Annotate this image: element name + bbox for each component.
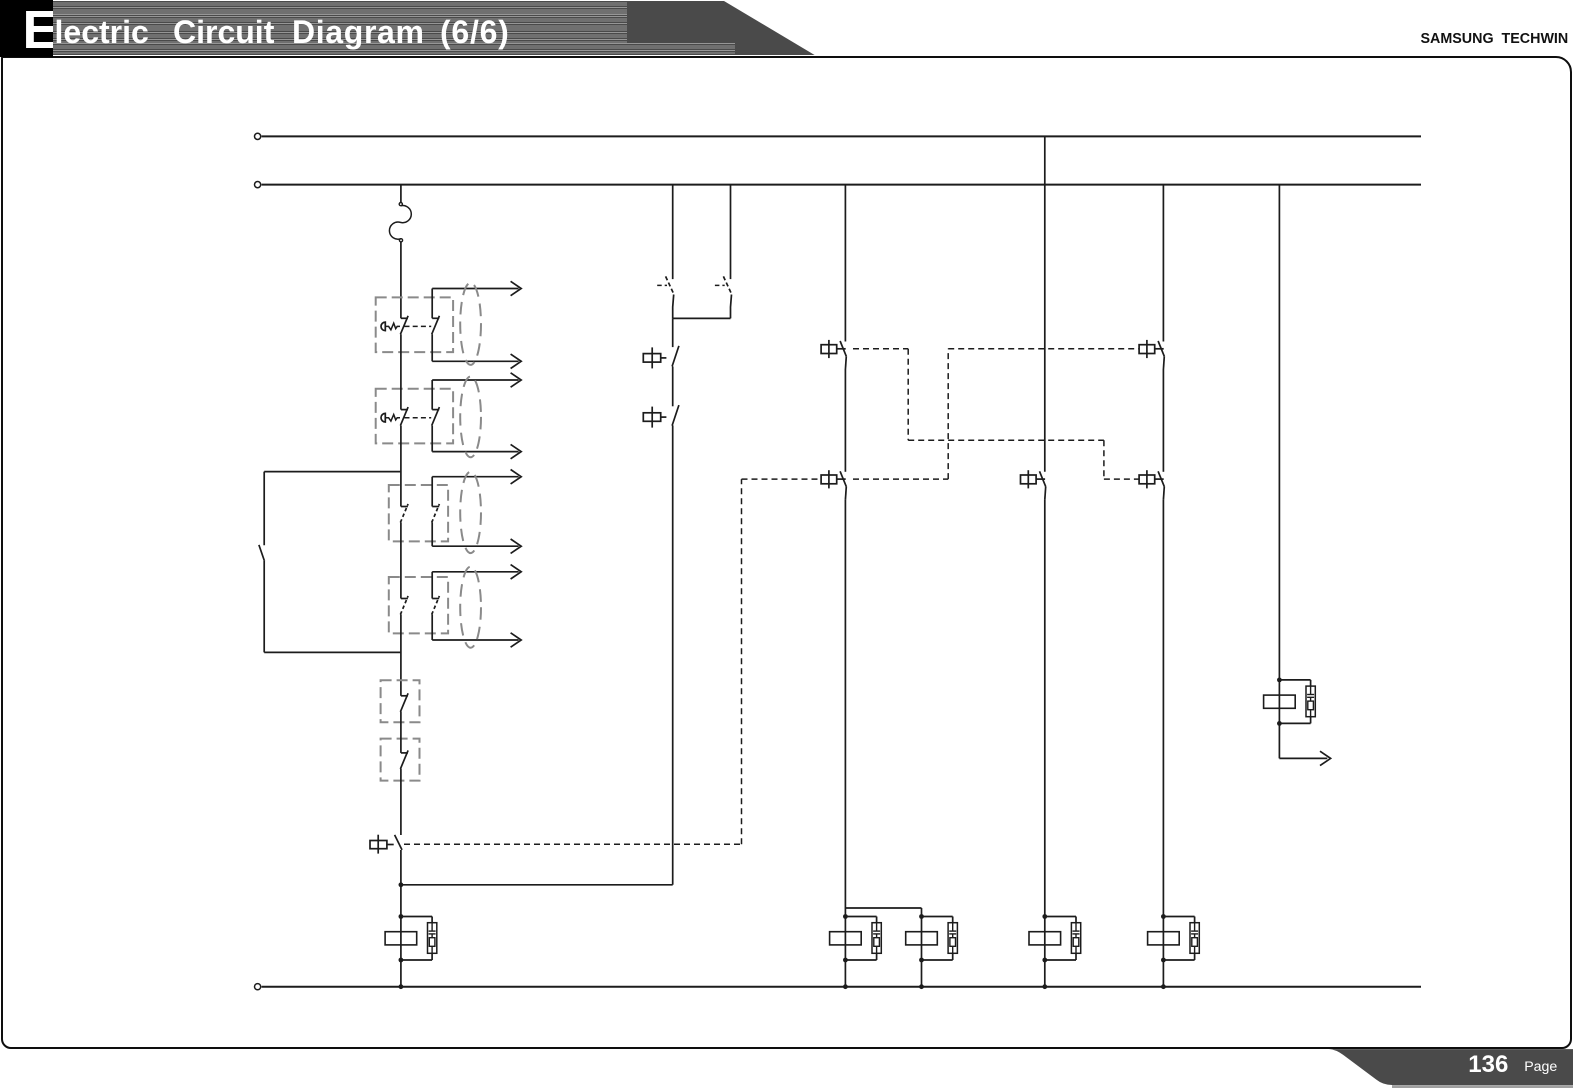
- coil K2 RC suppressor body: [872, 923, 881, 954]
- contact K2b moving contact (slash): [840, 471, 846, 486]
- arrow output B of switch group S2: [511, 444, 522, 458]
- switch group S1 manual actuator (handle + spring): [381, 322, 385, 331]
- contact K5b actuator box center line: [1146, 470, 1148, 488]
- coil K7 parallel branch bottom junction: [1277, 721, 1282, 726]
- wire coil K5 snubber bottom lead: [1163, 959, 1194, 961]
- wire v3 from bus L2: [730, 185, 732, 280]
- wire contact K5b lower bend: [1162, 487, 1165, 500]
- contact K2b actuator box center line: [828, 470, 830, 488]
- wire cross link v2 bottom to v1: [401, 884, 673, 886]
- switch group S4 pole 2 contact: [432, 598, 439, 600]
- wire bracket left vertical upper: [263, 472, 265, 546]
- switch S7 actuator box: [370, 841, 387, 849]
- relay coil coil K5: [1148, 932, 1180, 945]
- wire v6 down to bus N: [1044, 500, 1046, 987]
- wire switch group S4 pole 2 upper lead: [431, 572, 433, 599]
- auxiliary contact S6 enclosure (dashed box): [381, 739, 420, 781]
- linkage dashes left of K6b: [715, 284, 725, 286]
- cable grouping ellipse of switch group S3: [460, 472, 481, 553]
- wire v1 S2 to S3: [400, 426, 402, 507]
- coil K4 RC suppressor body: [1071, 923, 1080, 954]
- coil K5 parallel branch top junction: [1161, 914, 1166, 919]
- contact K5a moving contact (slash): [1158, 341, 1164, 356]
- wire contact K5a lower bend: [1162, 356, 1165, 369]
- mechanical linkage dashed riser to K2 contact: [742, 478, 821, 480]
- wire pressure switch B2 actuator link: [661, 416, 667, 418]
- wire bus L2 (second horizontal): [262, 184, 1421, 186]
- coil K3 suppressor capacitor plates: [949, 930, 956, 932]
- coil K3 suppressor resistor box: [950, 938, 956, 947]
- wire switch group S3 pole 2 upper lead: [431, 477, 433, 507]
- wire contact K2b lower bend: [844, 487, 847, 500]
- wire switch group S1 output A: [432, 288, 518, 290]
- contact K2b actuator box: [821, 475, 837, 484]
- breaker Q1 upper terminal circle: [399, 203, 402, 206]
- contact K6a moving arm (dashed slash) on v2: [666, 276, 674, 294]
- coil K1 parallel branch bottom junction: [399, 958, 404, 963]
- wire v2 to contact B1: [672, 318, 674, 347]
- contact K5b moving contact (slash): [1158, 471, 1164, 486]
- wire coil K7 snubber top lead: [1279, 679, 1310, 681]
- pressure switch B1 moving contact (slash): [672, 346, 679, 367]
- switch group S2 enclosure (dashed box): [376, 389, 453, 444]
- junction K4 branch / bus N: [1042, 984, 1047, 989]
- wire v1 S3 to S4: [400, 523, 402, 599]
- wire switch group S3 pole 2 lower lead: [431, 523, 433, 547]
- wire coil K1 snubber top lead: [401, 916, 432, 918]
- wire bracket top horizontal to v1: [264, 471, 401, 473]
- interlock dashed K2b right run: [853, 478, 948, 480]
- wire v8 output run: [1279, 757, 1327, 759]
- wire coil K2 snubber bottom lead: [845, 959, 876, 961]
- switch S7 moving contact (slash): [395, 835, 402, 850]
- switch group S1 mechanical linkage (dashed): [405, 325, 432, 327]
- contact K2a actuator box center line: [828, 340, 830, 358]
- wire switch group S2 pole 2 upper lead: [431, 380, 433, 410]
- top right company name: [1421, 31, 1569, 47]
- footer bottom light strip: [1392, 1085, 1573, 1088]
- wire v1 switch S7 to bus N: [400, 850, 402, 987]
- wire coil K5 snubber top lead: [1163, 916, 1194, 918]
- coil K2 parallel branch top junction: [843, 914, 848, 919]
- coil K4 suppressor capacitor plates: [1073, 930, 1080, 932]
- mechanical linkage dashed S7 to riser: [404, 843, 742, 845]
- wire bus L1 (top horizontal): [262, 135, 1421, 137]
- banner pinstripe texture left part: [53, 0, 627, 55]
- wire bracket left vertical lower: [263, 561, 265, 653]
- coil K7 RC suppressor body: [1306, 686, 1315, 717]
- auxiliary contact S6 contact on v1: [401, 752, 408, 754]
- footer wedge dark shape: [1329, 1049, 1573, 1085]
- pressure switch B2 actuator box center line: [651, 407, 653, 428]
- contact K6b moving arm (dashed slash) on v3: [723, 276, 731, 294]
- breaker Q1 lower terminal circle: [399, 239, 402, 242]
- contact K4a actuator box center line: [1027, 470, 1029, 488]
- junction K5 branch / bus N: [1161, 984, 1166, 989]
- interlock dashed to K5b box: [1104, 478, 1139, 480]
- coil K7 suppressor resistor box: [1308, 701, 1314, 710]
- wire v1 S1 to S2: [400, 334, 402, 409]
- arrow output B of switch group S3: [511, 539, 522, 553]
- wire switch group S1 pole 2 upper lead: [431, 289, 433, 319]
- wire contact K5a actuator link: [1155, 348, 1164, 350]
- auxiliary contact S5 enclosure (dashed box): [381, 680, 420, 722]
- coil K2 parallel branch bottom junction: [843, 958, 848, 963]
- coil K4 parallel branch bottom junction: [1042, 958, 1047, 963]
- coil K1 RC suppressor body: [428, 923, 437, 954]
- wire coil K7 snubber bottom lead: [1279, 722, 1310, 724]
- wire v1 breaker to switch S1: [400, 242, 402, 318]
- coil K7 suppressor capacitor plates: [1307, 694, 1314, 696]
- wire coil K2 snubber top lead: [845, 916, 876, 918]
- coil K1 parallel branch top junction: [399, 914, 404, 919]
- interlock dashed K2a right run: [853, 348, 908, 350]
- arrow output A of switch group S4: [511, 565, 522, 579]
- junction K2 branch / bus N: [843, 984, 848, 989]
- pressure switch B2 actuator box: [643, 413, 660, 422]
- switch group S2 mechanical linkage (dashed): [405, 417, 432, 419]
- wire v7 down to bus N: [1162, 500, 1164, 987]
- wire coil K3 snubber top lead: [922, 916, 953, 918]
- header black E box: [0, 0, 53, 57]
- wire v7 K5a to K5b: [1162, 370, 1164, 472]
- wire coil K3 snubber bottom lead: [922, 959, 953, 961]
- wire switch group S2 pole 2 lower lead: [431, 426, 433, 452]
- pressure switch B1 actuator box center line: [651, 347, 653, 368]
- wire v4 from bus L2 to contact K2a: [844, 185, 846, 342]
- wire v2 contact B2 down to cross link: [672, 425, 674, 884]
- linkage dashes left of K6a: [657, 284, 667, 286]
- cable grouping ellipse of switch group S1: [460, 283, 481, 365]
- terminal circle bus L1: [255, 133, 261, 139]
- wire pressure switch B1 actuator link: [661, 357, 667, 359]
- terminal circle bus L2: [255, 182, 261, 188]
- wire v2 below contact K6a: [673, 295, 674, 319]
- coil K2 suppressor resistor box: [874, 938, 880, 947]
- wire switch group S1 pole 2 lower lead: [431, 334, 433, 361]
- wire v1 S4 to S5: [400, 615, 402, 696]
- contact K4a moving contact (slash): [1040, 471, 1046, 486]
- wire contact K2a actuator link: [837, 348, 846, 350]
- arrow output A of switch group S3: [511, 470, 522, 484]
- header banner striped background: [53, 0, 816, 55]
- wire v4 down to bus N: [844, 500, 846, 987]
- wire coil K4 snubber bottom lead: [1045, 959, 1076, 961]
- arrow output A of switch group S1: [511, 281, 522, 295]
- relay coil coil K1: [385, 932, 417, 945]
- interlock dashed middle run: [908, 439, 1104, 441]
- wire contact K4a actuator link: [1036, 478, 1045, 480]
- wire switch group S3 output B: [432, 545, 518, 547]
- coil K3 parallel branch top junction: [919, 914, 924, 919]
- contact K2a moving contact (slash): [840, 341, 846, 356]
- wire v8 from bus L2 down: [1278, 185, 1280, 759]
- wire coil K4 snubber top lead: [1045, 916, 1076, 918]
- switch group S2 pole 2 contact: [432, 409, 439, 411]
- coil K5 parallel branch bottom junction: [1161, 958, 1166, 963]
- wire contact K5b actuator link: [1155, 478, 1164, 480]
- wire v1 S5 to S6: [400, 712, 402, 753]
- junction v1/cross link: [399, 882, 404, 887]
- coil K1 suppressor resistor box: [429, 938, 435, 947]
- arrow output of coil K7 branch: [1320, 751, 1331, 765]
- wire bus N (bottom horizontal): [262, 986, 1421, 988]
- arrow output B of switch group S4: [511, 633, 522, 647]
- coil K5 suppressor resistor box: [1192, 938, 1198, 947]
- switch group S1 pole 2 contact: [432, 317, 439, 319]
- switch group S3 pole 1 contact on v1: [401, 506, 408, 508]
- contact K5a actuator box: [1139, 345, 1155, 354]
- arrow output B of switch group S1: [511, 354, 522, 368]
- wire contact K2b actuator link: [837, 478, 846, 480]
- wire switch group S4 pole 2 lower lead: [431, 615, 433, 641]
- relay coil coil K7: [1264, 695, 1296, 708]
- coil K7 parallel branch top junction: [1277, 678, 1282, 683]
- coil K4 suppressor resistor box: [1073, 938, 1079, 947]
- relay coil coil K3: [906, 932, 938, 945]
- footer page number 136: [1468, 1053, 1508, 1077]
- wire switch group S4 output A: [432, 571, 518, 573]
- pressure switch B1 actuator box: [643, 354, 660, 363]
- wire v5 down to bus N: [921, 908, 923, 987]
- wire v1 S6 to switch S7: [400, 769, 402, 835]
- relay coil coil K4: [1029, 932, 1061, 945]
- switch group S1 pole 1 contact on v1: [401, 317, 408, 319]
- cable grouping ellipse of switch group S4: [460, 567, 481, 648]
- wire switch group S3 output A: [432, 476, 518, 478]
- junction K3 branch / bus N: [919, 984, 924, 989]
- coil K3 RC suppressor body: [948, 923, 957, 954]
- wire switch group S2 output B: [432, 451, 518, 453]
- switch group S4 enclosure (dashed box): [389, 577, 448, 633]
- coil K4 parallel branch top junction: [1042, 914, 1047, 919]
- switch group S3 pole 2 contact: [432, 506, 439, 508]
- header big letter E: [23, 4, 83, 58]
- coil K3 parallel branch bottom junction: [919, 958, 924, 963]
- switch group S3 enclosure (dashed box): [389, 485, 448, 541]
- relay coil coil K2: [830, 932, 862, 945]
- wire S7 actuator link: [387, 844, 394, 846]
- interlock dashed drop to K5b: [1103, 440, 1105, 479]
- interlock dashed to K5a box: [948, 348, 1139, 350]
- header title words: [55, 16, 149, 48]
- switch group S4 pole 1 contact on v1: [401, 598, 408, 600]
- wire switch group S2 output A: [432, 379, 518, 381]
- banner pinstripe texture bottom strip: [53, 43, 735, 54]
- wire v7 from bus L2 to contact K5a: [1162, 185, 1164, 342]
- wire v3 below contact K6b: [731, 295, 732, 319]
- wire joining v2 and v3: [673, 317, 731, 319]
- wire v2 contact B1 to B2: [672, 366, 674, 406]
- contact K5a actuator box center line: [1146, 340, 1148, 358]
- interlock dashed rise: [947, 349, 949, 479]
- auxiliary contact S5 contact on v1: [401, 695, 408, 697]
- contact K2a actuator box: [821, 345, 837, 354]
- wire contact K2a lower bend: [844, 356, 847, 369]
- arrow output A of switch group S2: [511, 373, 522, 387]
- contact K4a actuator box: [1021, 475, 1037, 484]
- wire bracket bottom horizontal to v1: [264, 651, 401, 653]
- switch group S2 manual actuator (handle + spring): [381, 413, 385, 422]
- wire switch group S4 output B: [432, 639, 518, 641]
- mechanical linkage dashed riser (vertical): [741, 479, 743, 844]
- switch group S2 pole 1 contact on v1: [401, 409, 408, 411]
- footer word Page: [1524, 1060, 1557, 1074]
- cable grouping ellipse of switch group S2: [460, 377, 481, 458]
- coil K1 suppressor capacitor plates: [429, 930, 436, 932]
- junction K1 branch / bus N: [399, 984, 404, 989]
- wire contact K4a lower bend: [1044, 487, 1047, 500]
- wire v4 K2a to K2b: [844, 370, 846, 472]
- wire switch group S1 output B: [432, 360, 518, 362]
- coil K2 suppressor capacitor plates: [873, 930, 880, 932]
- wire v1 from bus L2 to breaker Q1: [400, 185, 402, 203]
- wire v2 from bus L2: [672, 185, 674, 280]
- contact K5b actuator box: [1139, 475, 1155, 484]
- interlock dashed drop: [907, 349, 909, 440]
- wire coil K1 snubber bottom lead: [401, 959, 432, 961]
- coil K5 RC suppressor body: [1190, 923, 1199, 954]
- wire v6 from bus L1 to contact K4a: [1044, 136, 1046, 471]
- switch S8 moving contact (slash): [259, 545, 265, 561]
- coil K5 suppressor capacitor plates: [1191, 930, 1198, 932]
- terminal circle bus N: [255, 984, 261, 990]
- pressure switch B2 moving contact (slash): [672, 405, 679, 426]
- wire branch v4 to v5: [845, 907, 921, 909]
- switch S7 actuator box center line: [377, 835, 379, 854]
- switch group S1 enclosure (dashed box): [376, 297, 453, 352]
- breaker Q1 S-curve body: [389, 205, 411, 239]
